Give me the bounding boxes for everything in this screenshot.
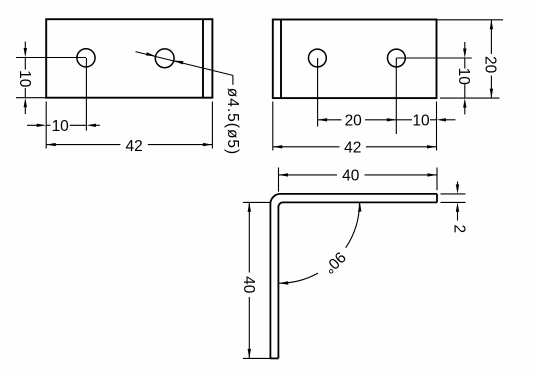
view 2 horizontal dim 10: segments <box>396 119 412 121</box>
view 2: bent part plate outline <box>273 20 437 99</box>
svg-text:2: 2 <box>451 224 468 233</box>
view 2 vertical dim 10: segments <box>464 42 466 50</box>
view 1 vertical dim 10: arrow up <box>24 98 27 108</box>
view 2 extension line: hole H4 vertical <box>395 58 397 134</box>
view 1 extension line: right edge down <box>211 102 213 149</box>
view 3 left dim 40: arrow down <box>248 349 251 359</box>
view 2 hole H4 <box>388 49 406 67</box>
svg-text:10: 10 <box>412 112 430 129</box>
view 3 left dim 40: extension bottom <box>243 357 270 359</box>
view 3: L profile outer contour <box>270 194 437 359</box>
view 3 angle dim arc lower segment <box>279 273 318 283</box>
view 2 hole H3 <box>309 49 327 67</box>
view 3 dim 2: tail up <box>457 182 459 186</box>
view 3 dim 2: tail down <box>457 211 459 221</box>
view 2 extension line: right edge down <box>436 102 438 151</box>
view 3 left dim 40: extension top <box>243 201 270 203</box>
view 1 hole leader line <box>136 52 233 76</box>
view 2 extension line: hole H4 center horizontal <box>396 57 471 59</box>
view 2 dim 42: segments <box>273 146 340 148</box>
svg-text:40: 40 <box>240 276 257 294</box>
view 1 horizontal dim 10: segments <box>27 124 38 126</box>
view 2 horizontal dim 10: arrow left outside <box>437 118 447 121</box>
view 1 vertical dim 10: line segments <box>24 42 26 50</box>
view 2 vertical dim 10: arrow up <box>463 98 466 108</box>
view 2 bend line <box>280 20 282 99</box>
view 1 bend line <box>202 19 204 98</box>
view 3 top dim 40: extension right <box>436 168 438 191</box>
svg-text:20: 20 <box>482 56 499 74</box>
view 1 leader vertical segment <box>232 75 234 84</box>
svg-text:10: 10 <box>455 68 472 86</box>
view 1 horizontal dim 10: arrow left <box>86 124 96 127</box>
view 3 left dim 40: arrow up <box>248 202 251 212</box>
svg-text:42: 42 <box>344 140 361 157</box>
svg-text:10: 10 <box>52 118 70 135</box>
view 1 dim 42: arrow left <box>46 143 56 146</box>
view 1 extension line: left edge down <box>45 102 47 149</box>
svg-text:10: 10 <box>16 70 33 88</box>
view 3 angle dim arc upper segment <box>346 203 360 248</box>
view 1 extension line: hole center horizontal <box>16 57 86 59</box>
view 2 vertical dim 10: arrow down <box>463 49 466 59</box>
view 3 top dim 40: arrow left <box>279 173 289 176</box>
view 1 horizontal dim 10: arrow right <box>37 124 47 127</box>
view 2 dim 42: arrow right <box>427 145 437 148</box>
view 1 vertical dim 10: arrow down <box>24 48 27 58</box>
view 1 leader arrow at left circle edge <box>146 52 156 56</box>
view 1 leader arrow at right circle edge <box>174 61 184 65</box>
view 2 dim 42: arrow left <box>273 145 283 148</box>
view 3 left dim 40: segments <box>248 202 250 272</box>
view 2 horizontal dim 20: arrow right <box>387 118 397 121</box>
view 3 top dim 40: extension left <box>278 168 280 192</box>
view 3 dim 2: extension top <box>441 193 466 195</box>
view 3 top dim 40: segments <box>279 174 338 176</box>
view 2 horizontal dim 20: segments <box>318 119 342 121</box>
view 1 hole H1 <box>77 49 95 67</box>
view 2 vertical dim 20: segments <box>490 20 492 54</box>
view 1 extension line: bottom edge left <box>16 97 46 99</box>
view 3 dim 2: arrow down <box>456 184 459 194</box>
view 2 vertical dim 20: arrow up <box>490 20 493 30</box>
view 3: L profile inner contour <box>278 202 437 358</box>
view 2 vertical dim 20: arrow down <box>490 89 493 99</box>
view 3 dim 2: extension bottom <box>441 201 466 203</box>
view 3 angle dim arrow left <box>279 281 289 284</box>
view 3: bottom end cap <box>270 357 278 359</box>
svg-text:42: 42 <box>125 138 142 155</box>
view 2 extension line: hole H3 vertical <box>317 58 319 127</box>
view 2 extension line: bottom edge right <box>440 97 500 99</box>
view 2 extension line: top edge right <box>437 19 504 21</box>
view 3 top dim 40: arrow right <box>428 173 438 176</box>
view 3: right end cap <box>436 194 438 203</box>
view 3 dim 2: arrow up <box>456 202 459 212</box>
view 1 dim 42: arrow right <box>203 143 213 146</box>
view 1: flat pattern plate outline <box>46 19 212 98</box>
view 3 angle dim arrow up <box>358 202 361 211</box>
svg-text:40: 40 <box>342 168 360 185</box>
view 1 extension line: hole H1 center vertical <box>85 58 87 131</box>
view 1 hole H2 <box>155 49 174 68</box>
view 1 dim 42: segments <box>46 144 120 146</box>
svg-text:20: 20 <box>345 112 363 129</box>
view 2 horizontal dim 20: arrow left <box>318 118 328 121</box>
view 2 extension line: left edge down <box>272 102 274 151</box>
svg-text:ø4.5(ø5): ø4.5(ø5) <box>224 88 241 155</box>
